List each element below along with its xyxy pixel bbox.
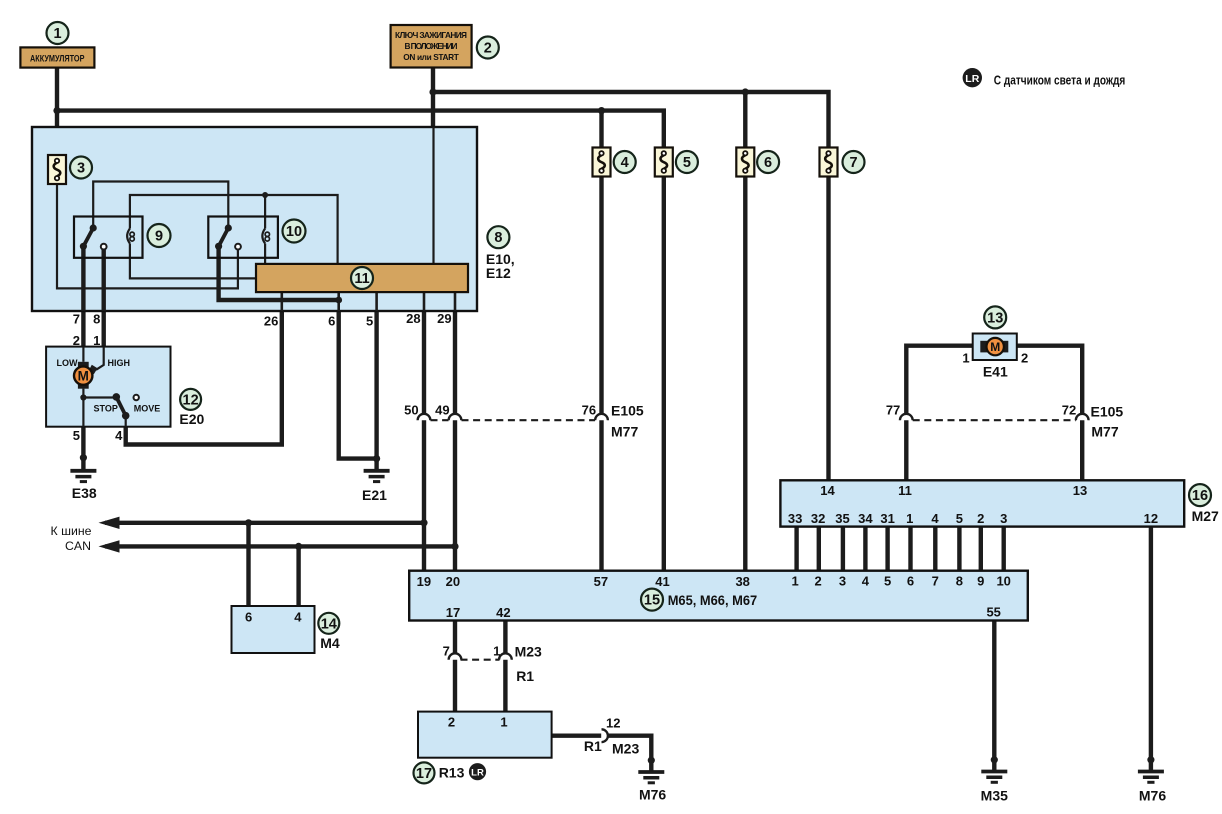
svg-text:7: 7 xyxy=(443,643,450,658)
svg-text:M35: M35 xyxy=(981,788,1008,804)
svg-text:7: 7 xyxy=(849,155,857,171)
svg-text:34: 34 xyxy=(858,511,873,526)
svg-text:К шине: К шине xyxy=(51,524,92,538)
svg-text:2: 2 xyxy=(977,511,984,526)
svg-text:13: 13 xyxy=(1073,483,1087,498)
svg-text:5: 5 xyxy=(956,511,963,526)
svg-text:12: 12 xyxy=(606,715,620,730)
svg-text:M23: M23 xyxy=(515,644,542,660)
svg-text:2: 2 xyxy=(448,715,455,730)
svg-text:M76: M76 xyxy=(1139,788,1166,804)
svg-text:6: 6 xyxy=(907,573,914,588)
svg-text:15: 15 xyxy=(644,593,660,609)
svg-text:4: 4 xyxy=(862,573,870,588)
svg-text:5: 5 xyxy=(884,573,891,588)
svg-text:HIGH: HIGH xyxy=(108,358,131,368)
svg-text:35: 35 xyxy=(835,511,849,526)
svg-text:49: 49 xyxy=(435,402,449,417)
svg-text:M27: M27 xyxy=(1192,508,1219,524)
svg-text:STOP: STOP xyxy=(94,404,118,414)
svg-text:1: 1 xyxy=(906,511,913,526)
svg-text:С датчиком света и дождя: С датчиком света и дождя xyxy=(994,72,1126,87)
svg-text:72: 72 xyxy=(1062,403,1076,418)
svg-text:28: 28 xyxy=(406,311,420,326)
svg-text:ON или START: ON или START xyxy=(403,52,459,62)
svg-text:57: 57 xyxy=(594,574,608,589)
svg-text:3: 3 xyxy=(839,573,846,588)
svg-text:1: 1 xyxy=(791,573,798,588)
svg-text:АККУМУЛЯТОР: АККУМУЛЯТОР xyxy=(30,54,85,65)
svg-text:E41: E41 xyxy=(983,364,1008,380)
svg-text:M65, M66, M67: M65, M66, M67 xyxy=(668,593,758,608)
svg-text:M76: M76 xyxy=(639,787,666,803)
svg-text:R1: R1 xyxy=(516,668,534,684)
svg-text:8: 8 xyxy=(93,311,100,326)
svg-text:9: 9 xyxy=(977,573,984,588)
svg-text:2: 2 xyxy=(484,41,492,57)
svg-text:16: 16 xyxy=(1192,488,1208,504)
svg-text:41: 41 xyxy=(655,574,669,589)
svg-text:R13: R13 xyxy=(439,765,465,781)
svg-text:31: 31 xyxy=(880,511,894,526)
svg-text:1: 1 xyxy=(493,643,500,658)
svg-text:9: 9 xyxy=(155,229,163,245)
svg-text:19: 19 xyxy=(417,574,431,589)
svg-text:1: 1 xyxy=(962,350,969,365)
svg-text:3: 3 xyxy=(77,161,85,177)
svg-text:17: 17 xyxy=(446,605,460,620)
svg-text:CAN: CAN xyxy=(65,539,91,553)
svg-text:E21: E21 xyxy=(362,487,387,503)
svg-text:42: 42 xyxy=(496,605,510,620)
svg-text:12: 12 xyxy=(183,392,199,408)
svg-text:11: 11 xyxy=(354,271,369,287)
svg-text:M4: M4 xyxy=(320,635,340,651)
svg-text:14: 14 xyxy=(321,616,337,632)
svg-text:5: 5 xyxy=(73,428,80,443)
svg-text:4: 4 xyxy=(621,155,629,171)
svg-text:M77: M77 xyxy=(611,423,638,439)
svg-text:E12: E12 xyxy=(486,265,511,281)
svg-text:6: 6 xyxy=(328,314,335,329)
svg-text:17: 17 xyxy=(416,766,432,782)
svg-text:11: 11 xyxy=(898,483,912,498)
svg-text:M: M xyxy=(78,368,89,383)
svg-text:12: 12 xyxy=(1144,511,1158,526)
svg-text:20: 20 xyxy=(446,574,460,589)
svg-text:E105: E105 xyxy=(1091,403,1124,419)
svg-text:E38: E38 xyxy=(72,485,97,501)
svg-text:5: 5 xyxy=(683,155,691,171)
svg-text:1: 1 xyxy=(93,333,100,348)
svg-text:7: 7 xyxy=(73,311,80,326)
svg-text:MOVE: MOVE xyxy=(134,404,161,414)
svg-text:2: 2 xyxy=(814,573,821,588)
svg-text:33: 33 xyxy=(788,511,802,526)
svg-text:13: 13 xyxy=(987,310,1003,326)
svg-text:76: 76 xyxy=(582,402,596,417)
svg-text:LOW: LOW xyxy=(57,358,78,368)
svg-text:4: 4 xyxy=(115,428,123,443)
svg-text:10: 10 xyxy=(996,573,1010,588)
svg-text:M23: M23 xyxy=(612,740,639,756)
svg-text:8: 8 xyxy=(494,230,502,246)
svg-text:LR: LR xyxy=(965,73,979,85)
svg-text:4: 4 xyxy=(931,511,939,526)
svg-text:1: 1 xyxy=(53,26,61,42)
svg-text:3: 3 xyxy=(1000,511,1007,526)
svg-text:E20: E20 xyxy=(179,411,204,427)
svg-text:LR: LR xyxy=(471,768,484,779)
svg-text:4: 4 xyxy=(294,610,302,625)
svg-text:7: 7 xyxy=(932,573,939,588)
svg-text:M77: M77 xyxy=(1091,423,1118,439)
svg-text:1: 1 xyxy=(500,715,507,730)
svg-text:6: 6 xyxy=(764,155,772,171)
svg-text:КЛЮЧ ЗАЖИГАНИЯ: КЛЮЧ ЗАЖИГАНИЯ xyxy=(395,30,467,40)
svg-text:14: 14 xyxy=(820,483,835,498)
svg-text:26: 26 xyxy=(264,314,278,329)
svg-text:29: 29 xyxy=(437,311,451,326)
svg-text:E105: E105 xyxy=(611,402,644,418)
svg-text:6: 6 xyxy=(245,610,252,625)
svg-text:50: 50 xyxy=(404,402,418,417)
svg-text:2: 2 xyxy=(73,333,80,348)
svg-text:R1: R1 xyxy=(584,738,602,754)
svg-text:8: 8 xyxy=(956,573,963,588)
svg-text:2: 2 xyxy=(1021,350,1028,365)
svg-text:M: M xyxy=(990,340,1000,354)
svg-text:В ПОЛОЖЕНИИ: В ПОЛОЖЕНИИ xyxy=(405,41,458,51)
svg-text:32: 32 xyxy=(811,511,825,526)
svg-text:10: 10 xyxy=(286,224,302,240)
svg-text:5: 5 xyxy=(366,314,373,329)
svg-text:77: 77 xyxy=(886,403,900,418)
svg-text:38: 38 xyxy=(735,574,749,589)
svg-text:55: 55 xyxy=(986,604,1000,619)
